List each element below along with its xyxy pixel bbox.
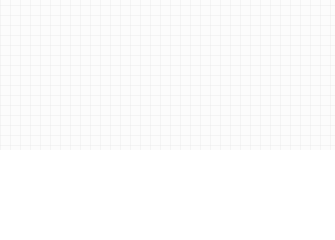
junction dots <box>0 0 1 1</box>
wires layer <box>0 0 1 1</box>
components layer <box>0 0 1 1</box>
labels <box>0 0 1 1</box>
